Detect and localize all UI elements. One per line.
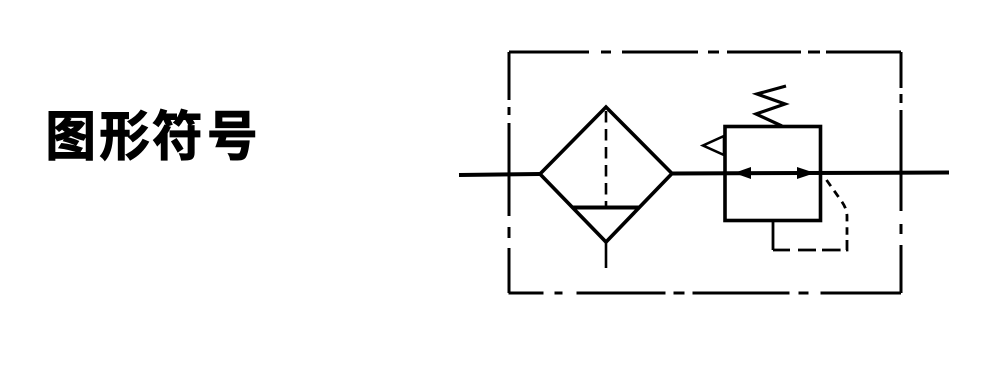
glyph 形 xyxy=(100,110,148,160)
regulator R1 body square xyxy=(725,127,821,221)
glyph 号 xyxy=(210,111,255,160)
regulator vent triangle xyxy=(703,136,724,155)
enclosure bottom edge (dash-dot) xyxy=(509,292,902,295)
regulator spring xyxy=(756,86,786,126)
enclosure top edge (dash-dot) xyxy=(509,51,901,54)
filter centerline (dashed) xyxy=(605,111,608,206)
glyph 符 xyxy=(153,109,200,160)
enclosure right edge (dash-dot) xyxy=(900,52,903,293)
arrowhead left xyxy=(734,167,751,179)
filter water-trap baffle line xyxy=(572,206,640,210)
filter drain line xyxy=(605,242,608,268)
filter F1 diamond xyxy=(540,107,672,242)
enclosure left edge (dash-dot) xyxy=(508,52,511,293)
regulator pilot line diagonal (dashed) xyxy=(827,180,848,241)
main flow line left segment xyxy=(459,174,540,175)
regulator pilot line bottom (dashed) xyxy=(773,240,847,250)
arrowhead right xyxy=(797,167,815,179)
regulator pilot stub xyxy=(772,221,775,250)
glyph 图 xyxy=(49,112,92,161)
main flow line right segment xyxy=(672,173,949,174)
label text 图形符号 xyxy=(49,109,255,160)
